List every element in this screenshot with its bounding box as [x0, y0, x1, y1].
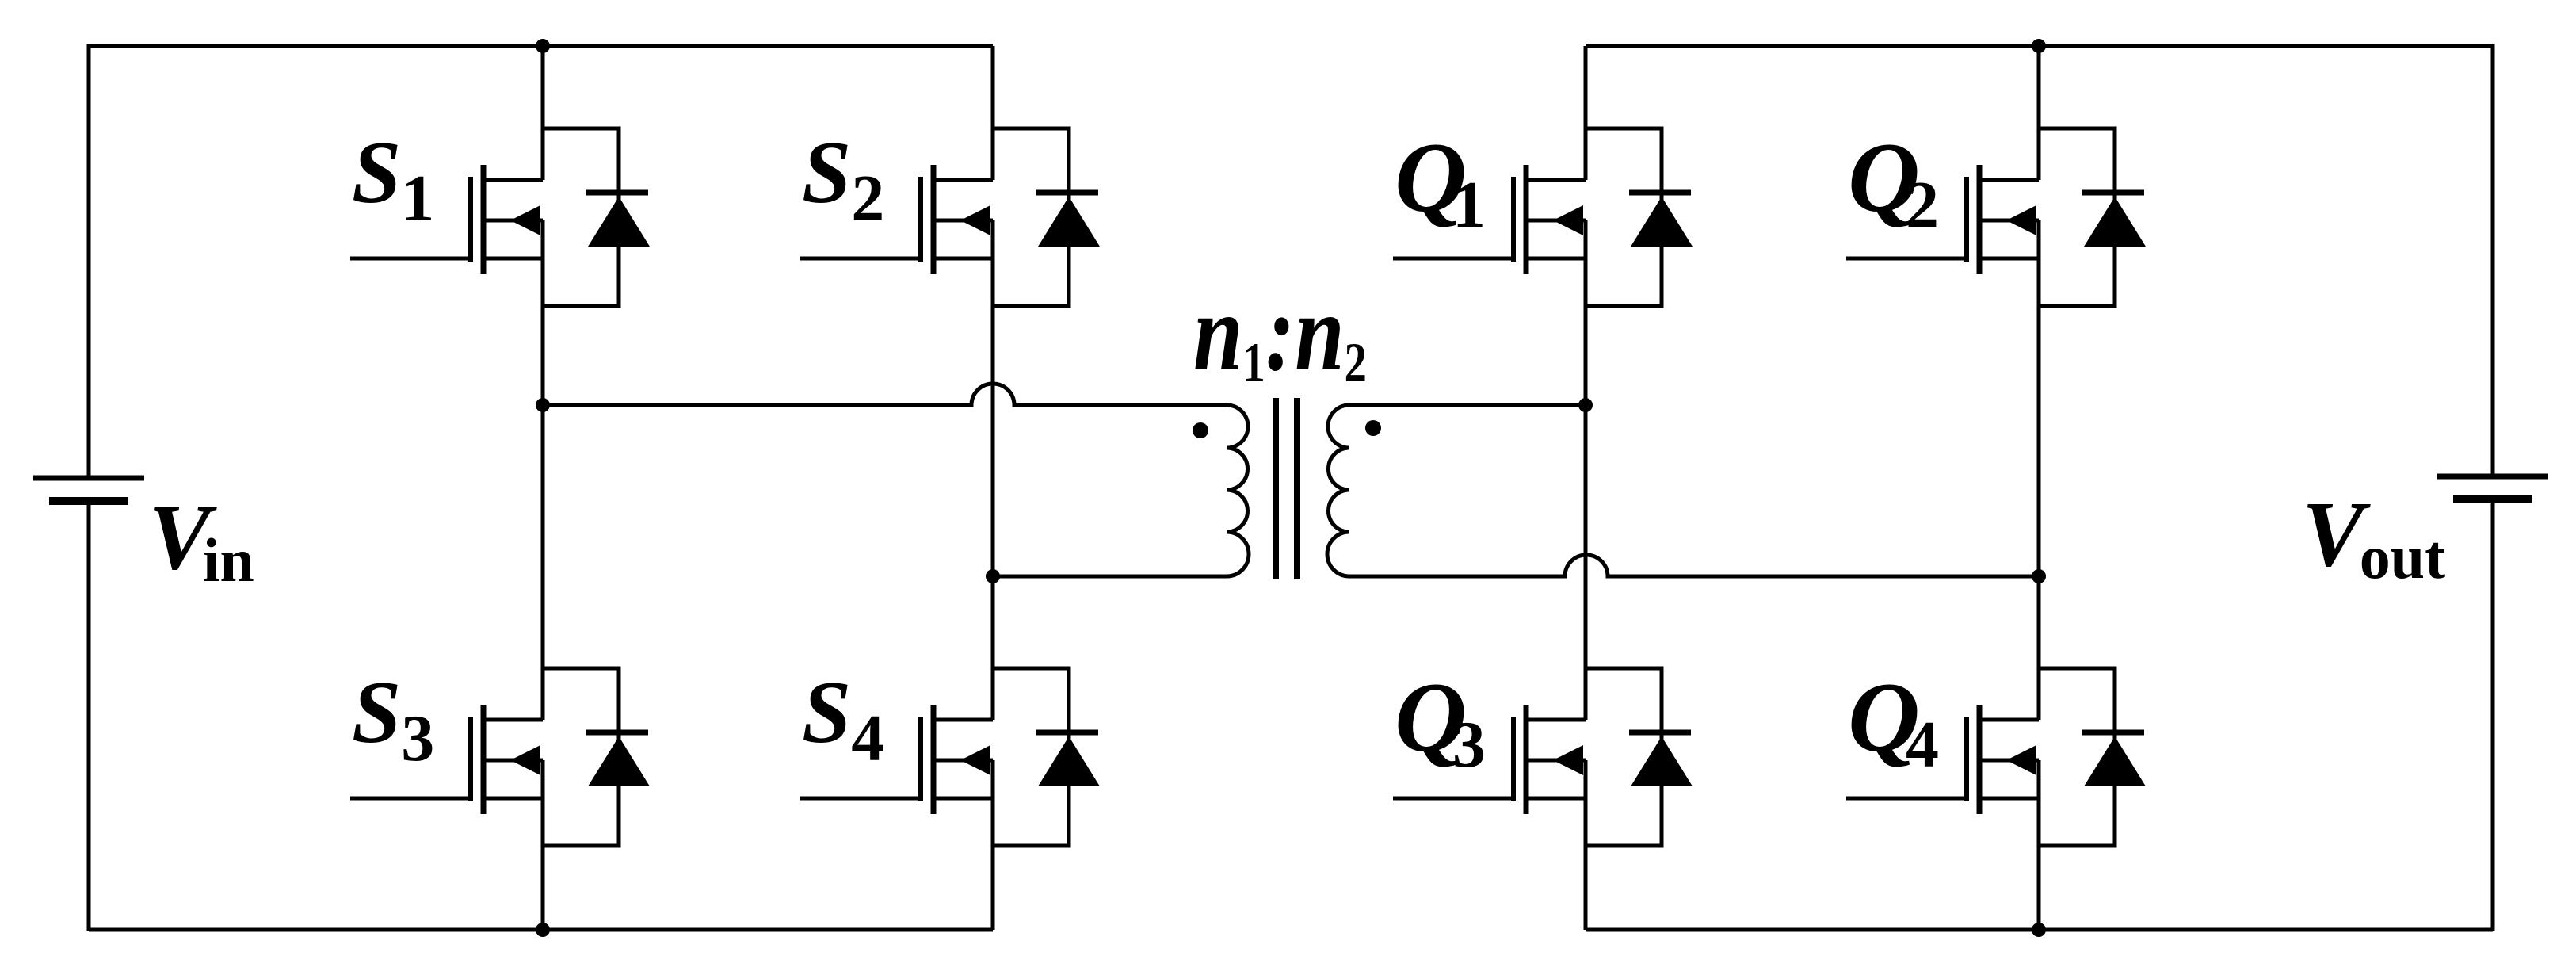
transistor Q4 [1846, 668, 2146, 846]
junction: Q1/Q3 midpoint [1578, 398, 1593, 412]
wire: left branch below Vin [87, 504, 91, 931]
polarity dot primary [1193, 422, 1208, 438]
wire: right branch below Vout [2491, 503, 2495, 931]
wire: leg S2/S4 upper segment [991, 46, 995, 180]
svg-text:S3: S3 [352, 663, 434, 775]
svg-text:Vin: Vin [148, 485, 254, 595]
transistor Q1 [1393, 128, 1693, 306]
battery Vout [2437, 476, 2548, 499]
battery Vin [33, 478, 144, 501]
svg-text:Q1: Q1 [1395, 123, 1486, 242]
wire: bottom rail of input bridge [89, 928, 993, 932]
junction: top rail / Q2 leg [2032, 39, 2046, 53]
svg-text:Q4: Q4 [1848, 663, 1939, 782]
transistor Q3 [1393, 668, 1693, 846]
wire: leg Q2/Q4 middle segment [2037, 220, 2041, 720]
svg-text:S2: S2 [802, 124, 884, 235]
wire: primary top lead with hop over S2/S4 leg and primary winding [543, 384, 1249, 576]
wire: secondary winding with top lead and bottom lead hopping over Q1/Q3 leg [1327, 405, 2039, 576]
wire: leg S1/S3 lower segment [541, 760, 545, 930]
junction: S2/S4 midpoint [986, 569, 1000, 583]
wire: leg Q2/Q4 lower segment [2037, 760, 2041, 930]
transistor S4 [800, 668, 1100, 846]
junction: top rail / S1 leg [536, 39, 550, 53]
wire: left branch above Vin [87, 44, 91, 476]
svg-text:Q3: Q3 [1395, 663, 1486, 782]
wire: right branch above Vout [2491, 44, 2495, 474]
wire: leg Q1/Q3 upper segment [1584, 46, 1588, 180]
wire: top rail of output bridge [1586, 44, 2493, 48]
transformer core [1276, 398, 1297, 579]
transistor S1 [350, 128, 650, 306]
junction: Q2/Q4 midpoint [2032, 569, 2046, 583]
wire: leg Q1/Q3 lower segment [1584, 760, 1588, 930]
transistor Q2 [1846, 128, 2146, 306]
polarity dot secondary [1365, 420, 1381, 436]
svg-text:S4: S4 [802, 663, 884, 775]
svg-text:Vout: Vout [2302, 482, 2445, 591]
wire: leg Q2/Q4 upper segment [2037, 46, 2041, 180]
wire: top rail of input bridge [89, 44, 993, 48]
wire: leg Q1/Q3 middle segment [1584, 220, 1588, 720]
wire: bottom rail of output bridge [1586, 928, 2493, 932]
transistor S3 [350, 668, 650, 846]
svg-text:n1:n2: n1:n2 [1193, 271, 1367, 394]
transistor S2 [800, 128, 1100, 306]
wire: leg S2/S4 middle segment [991, 220, 995, 720]
svg-text:S1: S1 [352, 124, 434, 235]
junction: bottom rail / S3 leg [536, 923, 550, 937]
wire: leg S1/S3 middle segment [541, 220, 545, 720]
wire: leg S1/S3 upper segment [541, 46, 545, 180]
junction: S1/S3 midpoint [536, 398, 550, 412]
junction: bottom rail / Q4 leg [2032, 923, 2046, 937]
svg-text:Q2: Q2 [1848, 123, 1939, 242]
wire: leg S2/S4 lower segment [991, 760, 995, 930]
